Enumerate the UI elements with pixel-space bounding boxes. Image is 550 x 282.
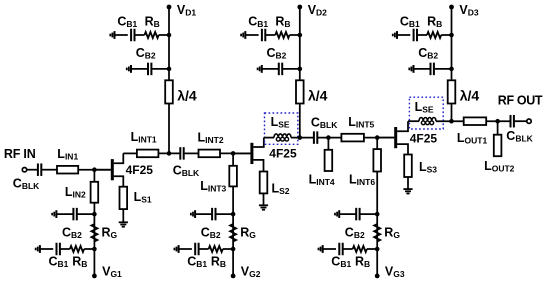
- resistor RG stage1: [91, 224, 97, 242]
- resistor RB gate stage3: [353, 246, 367, 252]
- label RG stage3: [384, 226, 400, 241]
- wire coil to node stage2: [291, 137, 313, 139]
- capacitor CB1 gate stage3: [339, 243, 342, 256]
- ground (left) CB1 gate stage1: [36, 245, 40, 253]
- ground (left) CB2 drain stage2: [258, 65, 262, 73]
- capacitor CB2 drain stage3: [431, 63, 434, 76]
- resistor RB drain stage2: [275, 32, 289, 38]
- ground (left) CB1 drain stage2: [241, 31, 245, 39]
- label CB2 drain stage1: [136, 46, 156, 61]
- wire gnd to CB2 stage3 gate: [339, 213, 355, 215]
- label 4F25 stage2: [269, 146, 297, 160]
- node gate Q3: [375, 135, 380, 140]
- wire RB to column stage1 gate: [84, 248, 94, 250]
- box LSE stage2 (dotted): [265, 113, 298, 144]
- wire RB to column stage2 gate: [223, 248, 233, 250]
- label LINT4: [309, 172, 335, 187]
- label 4F25 stage1: [126, 163, 154, 177]
- resistor RB drain stage3: [427, 32, 441, 38]
- wire VG1 column: [93, 214, 95, 276]
- ground (left) CB2 gate stage3: [335, 210, 339, 218]
- wire source stub stage2: [253, 160, 263, 172]
- ground LS3: [403, 189, 412, 193]
- inductor LINT3: [229, 166, 237, 187]
- inductor LIN2: [91, 182, 99, 203]
- inductor LIN1: [57, 166, 78, 174]
- wire VD1 column: [168, 7, 170, 80]
- wire CBLK to LINT5: [318, 137, 341, 139]
- wire gnd to CB2 stage3 drain: [414, 68, 430, 70]
- wire RB to column stage2 drain: [290, 34, 300, 36]
- label LINT2: [198, 131, 224, 146]
- label LIN2: [65, 185, 86, 200]
- capacitor CB2 gate stage1: [73, 208, 76, 221]
- node CB2 junction stage1 gate: [92, 212, 97, 217]
- ground (left) CB2 gate stage2: [191, 210, 195, 218]
- svg-text:λ/4: λ/4: [460, 88, 480, 104]
- label LINT1: [131, 130, 157, 145]
- svg-text:4F25: 4F25: [126, 163, 154, 177]
- inductor LINT2: [199, 150, 221, 158]
- node CB2 junction stage2 gate: [231, 212, 236, 217]
- label LSE stage3: [415, 100, 434, 115]
- node CB1/RB junction stage1 drain: [167, 33, 172, 38]
- label RB drain stage1: [145, 14, 160, 29]
- label lambda/4 stage1: [177, 88, 197, 104]
- wire VD3 column: [451, 7, 453, 80]
- node VD3 terminal: [449, 5, 454, 10]
- node CB1 junction stage2 gate: [231, 247, 236, 252]
- label CB2 drain stage2: [267, 46, 287, 61]
- label RF IN: [4, 147, 36, 161]
- wire RB to column stage1 drain: [159, 34, 169, 36]
- wire CB1 to RB stage1 drain: [135, 34, 144, 36]
- wire CBLK out to terminal: [515, 120, 527, 122]
- wire drain Q1 to LINT1: [123, 152, 137, 154]
- label RF OUT: [498, 93, 543, 107]
- wire VD2 column: [299, 7, 301, 80]
- label LS1: [134, 190, 152, 205]
- capacitor CB1 drain stage2: [262, 29, 265, 42]
- wire RFIN to CBLK: [27, 169, 38, 171]
- wire CB1 to RB stage3 gate: [343, 248, 352, 250]
- transistor Q2 4F25 gate bar: [250, 143, 253, 164]
- wire gnd to CB1 stage1 gate: [40, 248, 53, 250]
- label CB2 drain stage3: [418, 46, 438, 61]
- wire gate stage1: [94, 169, 110, 171]
- node LOUT2 junction: [495, 119, 500, 124]
- node CB2 junction stage3 drain: [449, 67, 454, 72]
- wire RB to column stage3 gate: [367, 248, 377, 250]
- label LINT6: [349, 173, 375, 188]
- label RB gate stage1: [72, 255, 87, 270]
- wire lambda/4 to drain node stage1: [168, 104, 170, 154]
- ground (left) CB1 gate stage2: [174, 245, 178, 253]
- label RB drain stage3: [427, 14, 442, 29]
- label CB1 drain stage2: [248, 14, 268, 29]
- wire drain stub stage1: [114, 153, 124, 163]
- node VG1 terminal: [92, 274, 97, 279]
- node gate Q1: [92, 167, 97, 172]
- wire gnd to CB1 stage2 drain: [245, 34, 258, 36]
- label lambda/4 stage3: [460, 88, 480, 104]
- quarter-wave line stage1: [165, 80, 173, 103]
- inductor LSE stage2 coil: [274, 134, 291, 141]
- wire CBLK to LINT2: [184, 152, 198, 154]
- wire gnd to CB1 stage1 drain: [115, 34, 128, 36]
- wire gate stage2: [233, 152, 250, 154]
- wire LINT5 to gate Q3: [364, 137, 394, 139]
- node CB1/RB junction stage2 drain: [298, 33, 303, 38]
- node CB2 junction stage1 drain: [167, 67, 172, 72]
- wire LINT1 to CBLK: [158, 152, 179, 154]
- label LS2: [272, 182, 290, 197]
- ground (left) CB2 drain stage1: [127, 65, 131, 73]
- label VD2: [308, 3, 327, 18]
- inductor LS3: [404, 155, 412, 178]
- label LSE stage2: [271, 115, 290, 130]
- inductor LINT4: [325, 150, 333, 171]
- inductor LINT1: [137, 150, 159, 158]
- capacitor CB1 gate stage1: [57, 243, 60, 256]
- node CB1/RB junction stage3 drain: [449, 33, 454, 38]
- wire lambda/4 to drain node stage3: [451, 104, 453, 122]
- label VD1: [177, 3, 196, 18]
- label LOUT1: [457, 131, 488, 146]
- wire CBLK to LIN1: [42, 169, 57, 171]
- node drain stage3: [449, 119, 454, 124]
- wire gnd to CB2 stage1 drain: [131, 68, 147, 70]
- terminal RF IN: [22, 168, 26, 172]
- label CBLK output: [506, 129, 533, 144]
- ground (left) CB1 gate stage3: [319, 245, 323, 253]
- wire gate node to LINT3: [232, 153, 234, 165]
- wire source stub stage1: [114, 176, 124, 187]
- box LSE stage3 (dotted): [409, 97, 443, 129]
- ground (left) CB1 drain stage3: [393, 31, 397, 39]
- node VD2 terminal: [297, 5, 302, 10]
- node VG2 terminal: [231, 274, 236, 279]
- wire gate node to LINT6: [376, 138, 378, 150]
- label LOUT2: [484, 159, 515, 174]
- label lambda/4 stage2: [308, 88, 328, 104]
- inductor LS2: [260, 172, 268, 194]
- svg-text:4F25: 4F25: [410, 131, 438, 145]
- ground (left) CB1 drain stage1: [110, 31, 114, 39]
- capacitor CB2 gate stage3: [356, 208, 359, 221]
- wire LIN1 to gate Q1: [78, 169, 111, 171]
- node CB1 junction stage3 gate: [375, 247, 380, 252]
- wire LS3 to ground: [407, 177, 409, 189]
- capacitor CB2 gate stage2: [212, 208, 215, 221]
- node gate Q2: [231, 151, 236, 156]
- wire CB1 to RB stage3 drain: [418, 34, 427, 36]
- resistor RG stage2: [230, 224, 236, 242]
- node CB2 junction stage2 drain: [298, 67, 303, 72]
- node VG3 terminal: [375, 274, 380, 279]
- wire VG2 column: [232, 214, 234, 276]
- label CBLK input: [13, 177, 40, 192]
- capacitor CB1 drain stage1: [131, 29, 134, 42]
- svg-text:RF IN: RF IN: [4, 147, 36, 161]
- wire gate node to LIN2: [93, 170, 95, 182]
- ground LS1: [119, 222, 128, 226]
- svg-text:4F25: 4F25: [269, 146, 297, 160]
- transistor Q1 4F25 gate bar: [111, 159, 114, 180]
- label CB1 gate stage2: [187, 255, 207, 270]
- wire CB2 to column stage2 gate: [216, 213, 233, 215]
- node CB2 junction stage3 gate: [375, 212, 380, 217]
- wire CB2 to column stage1 gate: [78, 213, 95, 215]
- label VD3: [459, 3, 478, 18]
- ground LS2: [259, 205, 268, 209]
- inductor LINT6: [373, 149, 381, 171]
- inductor LOUT1: [464, 117, 487, 125]
- node CB1 junction stage1 gate: [92, 247, 97, 252]
- label LINT5: [348, 115, 374, 130]
- wire CB1 to RB stage1 gate: [61, 248, 70, 250]
- svg-text:RF OUT: RF OUT: [498, 93, 543, 107]
- capacitor CBLK output: [511, 115, 514, 128]
- wire VG3 column: [376, 214, 378, 276]
- capacitor CB2 drain stage2: [279, 63, 282, 76]
- inductor LOUT2: [494, 135, 502, 157]
- wire CB2 to column stage1 drain: [152, 68, 169, 70]
- wire gate stage3: [377, 137, 394, 139]
- transistor Q3 4F25 gate bar: [394, 127, 397, 148]
- svg-text:λ/4: λ/4: [177, 88, 197, 104]
- wire source stub stage3: [397, 144, 408, 154]
- resistor RB gate stage1: [70, 246, 84, 252]
- capacitor CB2 drain stage1: [148, 63, 151, 76]
- capacitor CBLK input: [38, 163, 41, 176]
- wire CB2 to column stage2 drain: [283, 68, 300, 70]
- label CB1 gate stage3: [331, 255, 351, 270]
- resistor RB gate stage2: [209, 246, 223, 252]
- wire drain Q2 to coil: [264, 137, 274, 139]
- label CBLK interstage2: [311, 115, 338, 130]
- label CBLK interstage1: [173, 163, 200, 178]
- node lambda/4 stage1 junction: [167, 151, 172, 156]
- wire LOUT1 to CBLK out: [486, 120, 510, 122]
- label CB2 gate stage3: [345, 226, 365, 241]
- wire gnd to CB2 stage2 drain: [262, 68, 278, 70]
- wire LINT3 to bias: [232, 186, 234, 214]
- wire LINT2 to gate Q2: [220, 152, 250, 154]
- wire lambda/4 to drain node stage2: [299, 104, 301, 138]
- capacitor CB1 drain stage3: [414, 29, 417, 42]
- wire CB1 to RB stage2 gate: [199, 248, 208, 250]
- label VG2: [241, 265, 261, 280]
- ground (left) CB2 gate stage1: [52, 210, 56, 218]
- terminal RF OUT: [527, 119, 531, 123]
- label RB drain stage2: [275, 14, 290, 29]
- resistor RB drain stage1: [145, 32, 159, 38]
- wire LINT4 stub: [327, 138, 329, 150]
- label CB2 gate stage1: [62, 226, 82, 241]
- wire coil to node stage3: [436, 120, 464, 122]
- node LINT4 junction: [326, 135, 331, 140]
- capacitor CB1 gate stage2: [195, 243, 198, 256]
- wire LIN2 to bias: [93, 203, 95, 214]
- label RG stage2: [240, 226, 256, 241]
- node VD1 terminal: [167, 5, 172, 10]
- label CB2 gate stage2: [201, 226, 221, 241]
- label RB gate stage2: [211, 255, 226, 270]
- label RB gate stage3: [355, 255, 370, 270]
- wire LOUT2 stub: [497, 121, 499, 135]
- quarter-wave line stage3: [448, 80, 456, 103]
- wire gnd to CB2 stage2 gate: [195, 213, 211, 215]
- inductor LINT5: [341, 134, 364, 142]
- label LINT3: [200, 179, 226, 194]
- label LIN1: [57, 147, 78, 162]
- wire LS1 to ground: [122, 209, 124, 222]
- capacitor CBLK interstage2: [314, 131, 317, 144]
- ground (left) CB2 drain stage3: [409, 65, 413, 73]
- wire gnd to CB1 stage2 gate: [179, 248, 192, 250]
- svg-text:λ/4: λ/4: [308, 88, 328, 104]
- capacitor CBLK interstage1: [180, 147, 183, 160]
- resistor RG stage3: [374, 224, 380, 242]
- label CB1 gate stage1: [49, 255, 69, 270]
- quarter-wave line stage2: [296, 80, 304, 103]
- label CB1 drain stage1: [117, 14, 137, 29]
- wire LS2 to ground: [263, 193, 265, 205]
- wire drain Q3 to coil: [408, 120, 419, 122]
- label VG1: [102, 265, 122, 280]
- wire CB2 to column stage3 drain: [435, 68, 452, 70]
- node drain stage2: [298, 135, 303, 140]
- wire drain stub stage3: [397, 121, 408, 131]
- wire LINT6 to bias: [376, 172, 378, 215]
- wire gnd to CB1 stage3 gate: [323, 248, 336, 250]
- label 4F25 stage3: [410, 131, 438, 145]
- inductor LSE stage3 coil: [419, 118, 436, 125]
- inductor LS1: [120, 187, 128, 209]
- wire gnd to CB2 stage1 gate: [56, 213, 72, 215]
- wire gnd to CB1 stage3 drain: [397, 34, 410, 36]
- label CB1 drain stage3: [400, 14, 420, 29]
- wire CB1 to RB stage2 drain: [266, 34, 275, 36]
- label LS3: [419, 160, 437, 175]
- label RG stage1: [102, 226, 118, 241]
- label VG3: [385, 265, 405, 280]
- wire CB2 to column stage3 gate: [360, 213, 377, 215]
- wire RB to column stage3 drain: [441, 34, 451, 36]
- wire drain stub stage2: [253, 138, 263, 147]
